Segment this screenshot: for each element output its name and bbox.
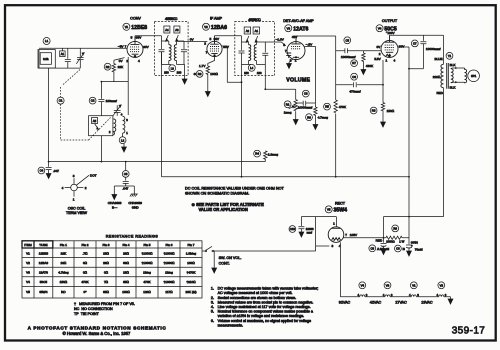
IF transformer T3 can <box>235 22 275 76</box>
alignment point A1 (T3) <box>253 27 259 42</box>
svg-text:2.2meg: 2.2meg <box>268 152 279 156</box>
svg-text:150Ω: 150Ω <box>60 280 68 284</box>
svg-text:V2: V2 <box>26 261 30 265</box>
footer PHOTOFACT line <box>28 326 167 331</box>
T3 primary capacitor <box>239 36 245 53</box>
svg-text:.7Ω: .7Ω <box>83 251 89 255</box>
table row V5 <box>26 290 196 294</box>
svg-text:†1000Ω: †1000Ω <box>142 251 154 255</box>
tube 50C5 V4 <box>381 35 398 57</box>
capacitor C4 .047 <box>46 162 52 174</box>
coupling capacitor C3 10000mmf <box>296 101 316 106</box>
svg-text:A4: A4 <box>165 28 169 32</box>
AVC resistor R4 2.2meg <box>264 151 267 162</box>
svg-text:TUBE: TUBE <box>39 243 47 247</box>
lead labels RED GRN <box>376 238 418 244</box>
svg-text:1: 1 <box>295 58 297 62</box>
svg-text:1meg: 1meg <box>284 111 292 115</box>
T2 terminal labels 180 <box>164 70 182 74</box>
svg-text:3: 3 <box>126 118 128 122</box>
svg-text:Pin 4: Pin 4 <box>122 243 129 247</box>
svg-text:2: 2 <box>204 42 206 46</box>
tube 12AT6 V3 <box>286 36 305 60</box>
svg-text:12AT6: 12AT6 <box>39 271 48 275</box>
T2 primary winding <box>162 41 172 65</box>
resistor R7 430K grid <box>362 51 365 70</box>
pin/voltage labels 50C5 <box>374 31 405 63</box>
svg-text:12AT6: 12AT6 <box>293 26 308 32</box>
svg-text:A2: A2 <box>246 29 250 33</box>
coupling capacitor C5 10000mmf <box>336 48 382 53</box>
osc coil winding primary <box>114 119 116 135</box>
T3 secondary capacitor <box>262 42 268 55</box>
svg-text:0Ω: 0Ω <box>83 271 88 275</box>
svg-text:5.: 5. <box>211 310 214 314</box>
svg-text:13Ω: 13Ω <box>123 271 129 275</box>
T1 secondary <box>451 68 453 83</box>
svg-text:TERM VIEW: TERM VIEW <box>66 211 87 215</box>
tube designator V2 12BA6 <box>203 23 228 31</box>
svg-text:© Howard W. Sams & Co., Inc. 1: © Howard W. Sams & Co., Inc. 1957 <box>63 331 131 336</box>
svg-text:R2: R2 <box>106 65 110 69</box>
capacitor C9 .047 <box>123 162 129 186</box>
svg-text:R3: R3 <box>198 72 202 76</box>
svg-text:DET-AVC-AF AMP: DET-AVC-AF AMP <box>283 19 314 23</box>
svg-text:V4: V4 <box>26 280 30 284</box>
svg-text:R9: R9 <box>393 227 397 231</box>
svg-text:Socket connections are shown a: Socket connections are shown as bottom v… <box>218 296 297 300</box>
svg-text:130Ω: 130Ω <box>122 290 130 294</box>
svg-text:.047: .047 <box>122 187 128 191</box>
svg-text:A1: A1 <box>255 29 259 33</box>
wire cathode 12BE6 <box>101 57 128 115</box>
svg-text:0V: 0V <box>377 45 382 49</box>
wire antenna bottom <box>39 50 80 69</box>
wire plate 12BE6 to T2 <box>135 35 162 37</box>
svg-text:3: 3 <box>331 244 333 248</box>
svg-text:4: 4 <box>121 112 123 116</box>
folder number 359-17 <box>452 326 486 337</box>
svg-text:22K: 22K <box>118 65 124 69</box>
R2 designator <box>104 63 124 70</box>
tube designator V5 35W4 <box>325 206 347 214</box>
pin/voltage labels 12AT6 <box>283 35 313 62</box>
junction dots buses <box>48 68 410 239</box>
svg-text:90V: 90V <box>223 45 229 49</box>
svg-text:100Ω: 100Ω <box>210 72 218 76</box>
oscillator coil box <box>89 116 113 136</box>
C6 designator <box>349 73 360 93</box>
svg-text:3.3h: 3.3h <box>43 57 49 61</box>
svg-text:4.: 4. <box>211 305 214 309</box>
T3 primary winding <box>242 42 252 65</box>
svg-text:.047: .047 <box>53 169 59 173</box>
svg-text:4: 4 <box>62 186 64 190</box>
R7 designator <box>351 60 374 68</box>
svg-text:SP1: SP1 <box>471 74 477 78</box>
svg-text:VOLUME: VOLUME <box>286 77 310 83</box>
junction dots T1 secondary <box>455 67 457 69</box>
svg-text:210Ω: 210Ω <box>433 75 441 79</box>
svg-text:470K: 470K <box>81 280 89 284</box>
svg-text:26Ω: 26Ω <box>123 251 129 255</box>
svg-text:CONT.: CONT. <box>219 262 230 266</box>
B+ bus <box>162 176 410 178</box>
resistance readings table <box>22 241 202 298</box>
alignment point A5 <box>92 118 99 130</box>
svg-text:V1: V1 <box>412 283 416 287</box>
svg-text:13VAC: 13VAC <box>421 301 433 305</box>
svg-text:C9: C9 <box>124 172 128 176</box>
svg-text:90V: 90V <box>143 45 149 49</box>
label VOLUME <box>286 77 310 83</box>
tube designator V4 50C5 <box>376 25 397 33</box>
note see parts list <box>192 202 265 212</box>
svg-text:V3: V3 <box>26 271 30 275</box>
svg-text:Line voltage maintained at 117: Line voltage maintained at 117 volts for… <box>218 305 311 309</box>
svg-text:2: 2 <box>379 52 381 56</box>
svg-text:3.: 3. <box>211 300 214 304</box>
wire T3 secondary top to V3 <box>265 42 286 46</box>
L1 designator <box>43 38 50 45</box>
svg-text:BLK: BLK <box>450 86 457 90</box>
capacitor C10 10000mmf <box>298 217 304 232</box>
resistor R6 4.7meg <box>314 103 317 125</box>
R9 designator <box>386 225 404 244</box>
R8 designator <box>370 107 395 114</box>
wire plate 12AT6 <box>296 35 336 37</box>
svg-text:0Ω: 0Ω <box>104 271 109 275</box>
svg-text:26Ω: 26Ω <box>103 261 109 265</box>
svg-text:1Meg: 1Meg <box>143 271 151 275</box>
resistor R3 100 ohm cathode <box>206 57 214 92</box>
capacitor fixed antenna <box>65 48 71 68</box>
R3 designator <box>194 71 219 78</box>
R4 designator <box>254 150 279 157</box>
C3 designator <box>298 90 313 109</box>
filter capacitor C8A 100mfd <box>381 238 387 250</box>
svg-text:variation of ±15% in voltage a: variation of ±15% in voltage and resista… <box>218 314 304 318</box>
footer copyright <box>63 331 131 336</box>
rect cathode line <box>344 237 386 239</box>
svg-text:0V: 0V <box>119 59 124 63</box>
svg-text:2.: 2. <box>211 296 214 300</box>
node 0V grid V2 <box>190 37 195 41</box>
C8A designator <box>369 245 390 252</box>
alignment point A4 <box>164 26 170 41</box>
svg-text:1.7V: 1.7V <box>199 64 206 68</box>
svg-text:R8: R8 <box>372 109 376 113</box>
C4 designator <box>38 167 59 174</box>
C5 designator <box>341 37 356 59</box>
label OUTPUT <box>382 19 398 23</box>
tube 12BA6 V2 <box>207 36 222 57</box>
svg-text:7: 7 <box>206 50 208 54</box>
svg-text:R7: R7 <box>352 61 356 65</box>
ground B- heater end <box>448 297 453 304</box>
tube 12BE6 V1 <box>127 36 143 58</box>
svg-text:B—: B— <box>112 205 118 209</box>
svg-text:A5: A5 <box>93 119 97 123</box>
ground B- below C4 <box>46 174 51 179</box>
wire detector to volume <box>265 55 295 99</box>
svg-text:50C5: 50C5 <box>40 280 48 284</box>
ground B- cathode 12AT6 <box>287 59 293 69</box>
svg-text:R4: R4 <box>255 152 259 156</box>
AVC bus <box>49 161 266 163</box>
pin/voltage labels 12BE6 <box>118 35 150 63</box>
svg-text:4: 4 <box>138 59 140 63</box>
table footnotes <box>74 302 135 316</box>
table header row <box>24 243 194 247</box>
svg-text:3: 3 <box>73 174 75 178</box>
T2 primary capacitor <box>159 36 165 65</box>
svg-text:RED: RED <box>376 238 383 242</box>
svg-text:L4: L4 <box>250 66 254 70</box>
resistor R2 22K <box>112 58 124 82</box>
note DC coil resistance <box>185 186 285 195</box>
svg-text:5.5V: 5.5V <box>374 57 381 61</box>
svg-text:−1.3V: −1.3V <box>276 38 285 42</box>
ground B- below T2 <box>182 65 187 85</box>
svg-text:V3: V3 <box>386 283 390 287</box>
svg-text:0V: 0V <box>190 37 195 41</box>
svg-text:R6: R6 <box>307 115 311 119</box>
svg-text:†470K: †470K <box>187 271 197 275</box>
resistor R9 1000 ohm 1W <box>386 236 409 239</box>
svg-text:T1: T1 <box>448 54 452 58</box>
on-off switch SW <box>205 246 214 251</box>
label 455KC (1st IF) <box>165 16 178 21</box>
svg-text:†1000Ω: †1000Ω <box>164 261 176 265</box>
svg-text:100Ω: 100Ω <box>187 261 195 265</box>
svg-text:4.7Meg: 4.7Meg <box>58 271 69 275</box>
pin labels 35W4 <box>331 221 357 248</box>
svg-text:117Ω: 117Ω <box>165 290 173 294</box>
speaker SP1 <box>468 70 480 82</box>
svg-text:L1: L1 <box>45 39 49 43</box>
svg-text:C5: C5 <box>346 38 350 42</box>
svg-text:BLK: BLK <box>450 63 457 67</box>
T2 secondary winding <box>174 41 184 65</box>
L3 designator <box>169 65 176 72</box>
heater V4 <box>358 282 368 297</box>
heater V2 <box>437 282 447 297</box>
svg-text:NC: NC <box>61 290 66 294</box>
svg-text:C7: C7 <box>413 42 417 46</box>
wire T2 return to B+ bus <box>161 52 163 177</box>
svg-text:C1: C1 <box>59 99 63 103</box>
svg-text:C6: C6 <box>352 75 356 79</box>
svg-text:1000Ω: 1000Ω <box>386 240 394 244</box>
svg-text:10000mmf: 10000mmf <box>341 55 356 59</box>
svg-text:2: 2 <box>85 186 87 190</box>
wires to speaker <box>452 68 464 82</box>
wire plate 12BA6 to T3 <box>215 35 242 37</box>
ground B- below volume <box>293 120 298 125</box>
loop antenna L1 <box>38 50 55 69</box>
wire antenna return <box>48 68 50 162</box>
ground B- below L2 <box>122 144 127 152</box>
T1 designator <box>446 52 453 59</box>
svg-text:OSC COIL: OSC COIL <box>68 207 86 211</box>
svg-text:6.: 6. <box>211 319 214 323</box>
table row V4 <box>26 280 196 284</box>
tuning capacitor C1A <box>76 48 84 68</box>
svg-text:† MEASURED FROM PIN 7 OF V5.: † MEASURED FROM PIN 7 OF V5. <box>74 302 135 306</box>
osc coil terminal view <box>62 173 97 201</box>
svg-text:V2: V2 <box>204 25 208 29</box>
svg-text:C4: C4 <box>40 169 44 173</box>
ground B- below R3 <box>205 92 210 97</box>
table row V2 <box>26 261 195 265</box>
tuning gang designator C1 <box>57 97 64 104</box>
svg-text:DOT: DOT <box>90 173 97 177</box>
svg-text:0Ω: 0Ω <box>83 261 88 265</box>
wire C10/plate line <box>301 217 336 227</box>
svg-text:1.3Meg: 1.3Meg <box>186 251 197 255</box>
svg-text:DC voltage measurements taken: DC voltage measurements taken with vacuu… <box>218 287 319 291</box>
svg-text:470mmf: 470mmf <box>349 90 360 94</box>
svg-text:DC COIL RESISTANCE VALUES UNDE: DC COIL RESISTANCE VALUES UNDER ONE OHM … <box>185 186 285 190</box>
svg-text:5: 5 <box>210 37 212 41</box>
tube 35W4 V5 <box>328 227 344 243</box>
svg-text:mmf: mmf <box>307 231 313 235</box>
svg-text:Pin 2: Pin 2 <box>81 243 88 247</box>
label OSC COIL TERM VIEW <box>66 207 87 216</box>
R6 designator <box>306 114 329 121</box>
plate load wire / R5 branch <box>335 36 337 177</box>
svg-text:ITEM: ITEM <box>24 243 32 247</box>
svg-text:L3: L3 <box>171 66 175 70</box>
wire T2 secondary to V2 grid <box>177 40 208 42</box>
svg-text:A3: A3 <box>175 28 179 32</box>
svg-text:16Ω: 16Ω <box>60 261 66 265</box>
L4 designator <box>248 64 255 71</box>
svg-text:1: 1 <box>126 131 128 135</box>
C8B designator <box>395 243 424 252</box>
svg-text:1: 1 <box>333 221 335 225</box>
label IF AMP <box>210 17 223 21</box>
osc trimmer capacitor <box>113 105 121 116</box>
svg-text:V2: V2 <box>440 283 444 287</box>
svg-text:150Ω: 150Ω <box>387 109 395 113</box>
C2 designator <box>89 97 117 104</box>
svg-text:A PHOTOFACT STANDARD NOTATION: A PHOTOFACT STANDARD NOTATION SCHEMATIC <box>28 326 167 331</box>
C10 designator <box>289 226 314 235</box>
svg-text:4: 4 <box>394 59 396 63</box>
gang link dashed <box>61 70 111 141</box>
switch line from volume <box>202 250 316 252</box>
svg-text:359-17: 359-17 <box>452 326 486 337</box>
ground B- below C8A <box>381 250 386 255</box>
svg-text:OUTPUT: OUTPUT <box>382 19 398 23</box>
wire grid 12AT6 down <box>305 47 316 104</box>
svg-text:AC voltages measured at 1000 o: AC voltages measured at 1000 ohms per vo… <box>218 291 293 295</box>
table row V1 <box>26 251 196 255</box>
svg-text:Nominal tolerance on component: Nominal tolerance on component values ma… <box>218 310 314 314</box>
osc pin numbers <box>109 112 128 135</box>
cathode line 50C5 <box>336 60 383 103</box>
capacitor C6 470mmf <box>354 82 357 87</box>
ground B- chassis B- <box>108 195 122 210</box>
T1 lead labels <box>433 57 457 95</box>
RED wire from T1 to B+ node <box>409 216 444 218</box>
capacitor C2 100mmf <box>98 82 104 116</box>
svg-text:R5: R5 <box>325 105 329 109</box>
svg-text:Pin 6: Pin 6 <box>165 243 172 247</box>
svg-text:SHOWN ON SCHEMATIC DIAGRAM.: SHOWN ON SCHEMATIC DIAGRAM. <box>185 191 249 195</box>
svg-text:L2: L2 <box>121 138 125 142</box>
svg-text:12BA6: 12BA6 <box>211 25 227 31</box>
svg-text:RECT: RECT <box>335 201 346 205</box>
chassis ground symbol <box>128 194 142 209</box>
svg-text:180: 180 <box>244 71 249 75</box>
label 455KC (2nd IF) <box>248 17 261 22</box>
svg-text:1: 1 <box>73 198 75 202</box>
svg-text:V4: V4 <box>361 283 365 287</box>
L2 designator <box>119 137 126 144</box>
IF transformer T2 can <box>154 22 188 76</box>
svg-text:13Ω: 13Ω <box>103 251 109 255</box>
wire antenna top <box>39 47 127 49</box>
table row V3 <box>26 271 196 275</box>
svg-text:C8: C8 <box>371 246 375 250</box>
svg-text:42VAC: 42VAC <box>370 301 382 305</box>
svg-text:B: B <box>403 247 406 251</box>
C9 designator <box>122 171 129 191</box>
svg-text:1.: 1. <box>211 287 214 291</box>
svg-text:C3: C3 <box>304 92 308 96</box>
svg-text:470K: 470K <box>339 105 347 109</box>
svg-text:measurements.: measurements. <box>218 323 243 327</box>
resistor R8 150 ohm <box>381 103 384 123</box>
svg-text:4.7meg: 4.7meg <box>318 116 329 120</box>
svg-text:Pin 5: Pin 5 <box>143 243 150 247</box>
R1 designator <box>284 101 292 115</box>
svg-text:7: 7 <box>125 45 127 49</box>
heater lead 35W4 <box>339 242 341 297</box>
T2 secondary capacitor <box>181 41 187 65</box>
svg-text:C2: C2 <box>91 99 95 103</box>
svg-text:−5V: −5V <box>118 45 125 49</box>
svg-text:Volume control at maximum, no: Volume control at maximum, no signal app… <box>218 319 311 323</box>
wire screen 12BA6 to B+ <box>222 46 242 82</box>
svg-text:22K: 22K <box>61 251 67 255</box>
svg-text:C10: C10 <box>290 227 296 231</box>
C9 to grounds <box>114 186 134 195</box>
heater voltage labels <box>339 301 433 305</box>
svg-text:7Ω: 7Ω <box>104 280 109 284</box>
svg-text:92VAC: 92VAC <box>339 301 351 305</box>
svg-text:100mmf: 100mmf <box>106 99 117 103</box>
svg-text:35W4: 35W4 <box>39 290 47 294</box>
svg-text:Measured values are from socke: Measured values are from socket pin to c… <box>218 300 314 304</box>
osc coil winding secondary L2 <box>123 116 125 136</box>
svg-text:470K: 470K <box>143 280 151 284</box>
svg-text:⌜100V: ⌜100V <box>386 31 396 35</box>
alignment point A2 <box>244 27 250 42</box>
label DET-AVC-AF AMP <box>283 19 314 23</box>
C7 designator <box>411 40 440 51</box>
svg-text:1 W: 1 W <box>399 240 404 244</box>
filter capacitor C8B 70mfd <box>406 238 412 251</box>
svg-text:2: 2 <box>109 130 111 134</box>
screen wire to B+ <box>398 46 409 48</box>
wire osc box bottom to AVC bus <box>100 136 102 162</box>
svg-text:V5: V5 <box>26 290 30 294</box>
svg-text:455KC: 455KC <box>248 17 261 22</box>
